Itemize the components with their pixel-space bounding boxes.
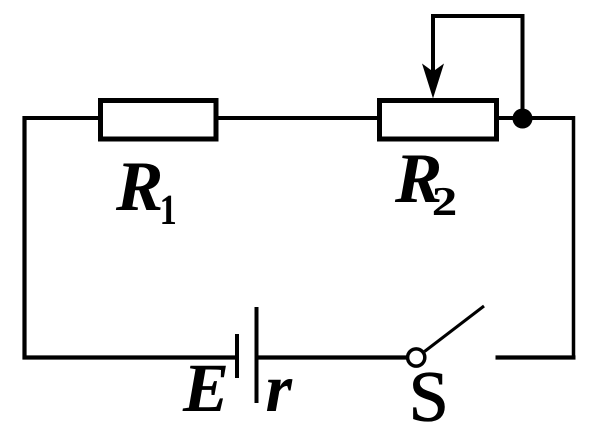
wire left vertical: [22, 116, 26, 360]
wire top horizontal: [23, 116, 574, 120]
battery positive plate (long): [255, 307, 259, 403]
wiper arrowhead: [422, 64, 444, 99]
wiper right drop wire: [521, 14, 525, 118]
label R2: [395, 156, 440, 203]
wire bottom left segment (to battery): [23, 355, 238, 359]
battery negative plate (short): [235, 334, 239, 378]
label E: [183, 366, 226, 411]
wire right vertical: [572, 116, 576, 360]
wire bottom middle segment (battery to switch): [257, 355, 408, 359]
wiper top wire: [431, 14, 525, 18]
label r: [267, 379, 293, 411]
label S: [414, 373, 445, 421]
label R1: [116, 164, 161, 211]
junction node dot: [513, 109, 533, 129]
resistor R2 (rheostat body): [380, 101, 497, 140]
resistor R1: [101, 101, 217, 140]
wiper stem wire: [431, 14, 435, 80]
switch S blade: [425, 306, 485, 352]
switch S pivot circle: [408, 349, 425, 366]
wire bottom right segment (switch to right): [496, 355, 576, 359]
